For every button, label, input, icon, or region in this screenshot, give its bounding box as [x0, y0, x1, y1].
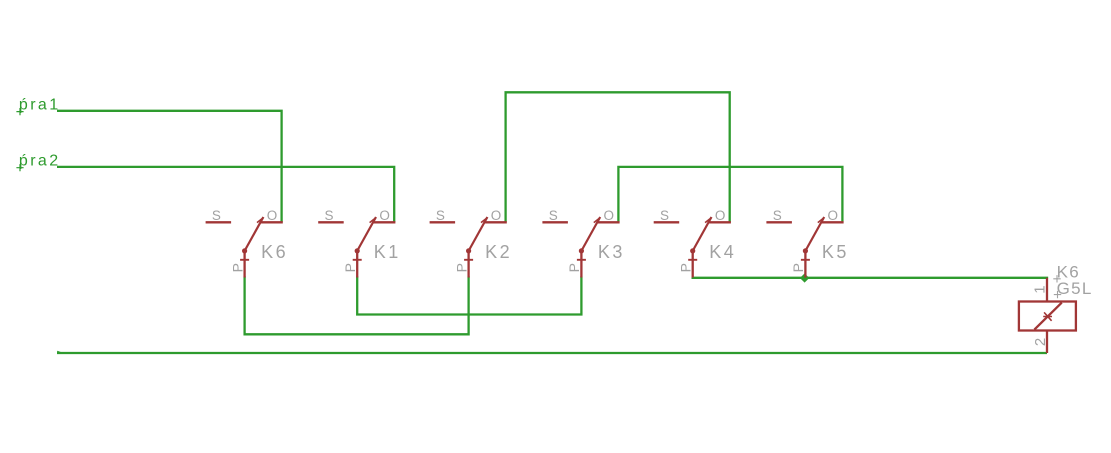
K1 pin P lead	[356, 251, 358, 278]
K1 pin O lead	[373, 221, 395, 223]
svg-text:P: P	[566, 263, 582, 272]
wire net pra2	[57, 167, 394, 222]
svg-text:K6: K6	[261, 242, 288, 262]
K5 pin P crossbar	[801, 259, 810, 261]
K4 lever barb	[705, 218, 710, 222]
K1 lever barb	[370, 218, 375, 222]
relay contact K2	[430, 208, 513, 278]
K5 lever pivot dot	[803, 248, 808, 253]
junction dot at K5.P	[800, 273, 809, 282]
K1 pin P crossbar	[353, 259, 362, 261]
relay coil K6 G5L	[1019, 263, 1093, 353]
K2 pin P crossbar	[464, 259, 473, 261]
svg-text:O: O	[491, 208, 502, 223]
K6 pin S lead	[206, 221, 232, 223]
K4 pin P crossbar	[688, 259, 697, 261]
relay contact K6	[206, 208, 289, 278]
svg-text:S: S	[436, 208, 445, 223]
K5 lever barb	[818, 218, 823, 222]
K4 pin O lead	[709, 221, 731, 223]
relay contact K1	[318, 208, 401, 278]
svg-text:S: S	[212, 208, 221, 223]
svg-text:O: O	[828, 208, 839, 223]
svg-text:K2: K2	[485, 242, 512, 262]
svg-text:O: O	[267, 208, 278, 223]
relay contact K3	[542, 208, 625, 278]
K6 switch lever	[245, 217, 264, 251]
K5 switch lever	[805, 217, 824, 251]
svg-text:O: O	[604, 208, 615, 223]
coil pin 1 lead	[1046, 278, 1048, 302]
svg-text:ṕra1: ṕra1	[19, 96, 61, 113]
K2 pin O lead	[485, 221, 507, 223]
K1 switch lever	[357, 217, 376, 251]
svg-text:K1: K1	[374, 242, 401, 262]
K6 pin O lead	[261, 221, 283, 223]
net pra2 origin cross	[16, 164, 23, 171]
bottom wire to coil pin 2	[57, 352, 1047, 354]
wire net pra1	[57, 111, 282, 223]
K3 lever barb	[594, 218, 599, 222]
svg-text:O: O	[379, 208, 390, 223]
svg-text:O: O	[715, 208, 726, 223]
svg-text:ṕra2: ṕra2	[19, 153, 61, 170]
coil body rectangle	[1019, 302, 1076, 331]
K1 lever pivot dot	[355, 248, 360, 253]
svg-text:P: P	[342, 263, 358, 272]
svg-text:K3: K3	[598, 242, 625, 262]
K3 lever pivot dot	[579, 248, 584, 253]
svg-text:P: P	[453, 263, 469, 272]
K2 lever pivot dot	[466, 248, 471, 253]
K2 pin P lead	[467, 251, 469, 278]
wire K6.P to K2.P	[245, 276, 469, 334]
K2 pin S lead	[430, 221, 456, 223]
relay contact K4	[654, 208, 737, 278]
bottom wire start tick	[57, 351, 60, 352]
K3 pin S lead	[542, 221, 568, 223]
K1 pin S lead	[318, 221, 344, 223]
K3 pin O lead	[597, 221, 619, 223]
K4 switch lever	[693, 217, 712, 251]
net pra1 origin cross	[16, 108, 23, 115]
K5 pin S lead	[766, 221, 792, 223]
svg-text:K5: K5	[822, 242, 849, 262]
K6 lever barb	[257, 218, 262, 222]
K4 pin S lead	[654, 221, 680, 223]
K4 pin P lead	[692, 251, 694, 278]
coil value origin cross	[1054, 291, 1061, 298]
wire K1.P to K3.P	[357, 276, 581, 314]
svg-text:P: P	[790, 263, 806, 272]
svg-text:K4: K4	[709, 242, 736, 262]
wire K4.P to K5.P to coil pin 1	[692, 277, 1048, 280]
wire K3.O to K5.O	[618, 167, 842, 222]
K2 switch lever	[469, 217, 488, 251]
K6 pin P lead	[243, 251, 245, 278]
svg-text:P: P	[229, 263, 245, 272]
svg-text:1: 1	[1032, 285, 1049, 293]
coil name origin cross	[1053, 275, 1060, 282]
K2 lever barb	[481, 218, 486, 222]
K3 switch lever	[581, 217, 600, 251]
K5 pin O lead	[821, 221, 843, 223]
K6 pin P crossbar	[240, 259, 249, 261]
svg-text:S: S	[773, 208, 782, 223]
svg-text:S: S	[324, 208, 333, 223]
K4 lever pivot dot	[690, 248, 695, 253]
K5 pin P lead	[804, 251, 806, 278]
coil pin 2 lead	[1046, 331, 1048, 354]
svg-text:S: S	[660, 208, 669, 223]
K6 lever pivot dot	[242, 248, 247, 253]
wire K2.O to K4.O	[506, 92, 730, 222]
svg-text:2: 2	[1032, 338, 1049, 346]
coil center star	[1043, 312, 1052, 320]
K3 pin P crossbar	[577, 259, 586, 261]
coil diagonal	[1034, 303, 1061, 330]
K3 pin P lead	[580, 251, 582, 278]
svg-text:S: S	[549, 208, 558, 223]
svg-text:P: P	[677, 263, 693, 272]
relay contact K5	[766, 208, 849, 278]
svg-text:G5L: G5L	[1057, 279, 1093, 298]
